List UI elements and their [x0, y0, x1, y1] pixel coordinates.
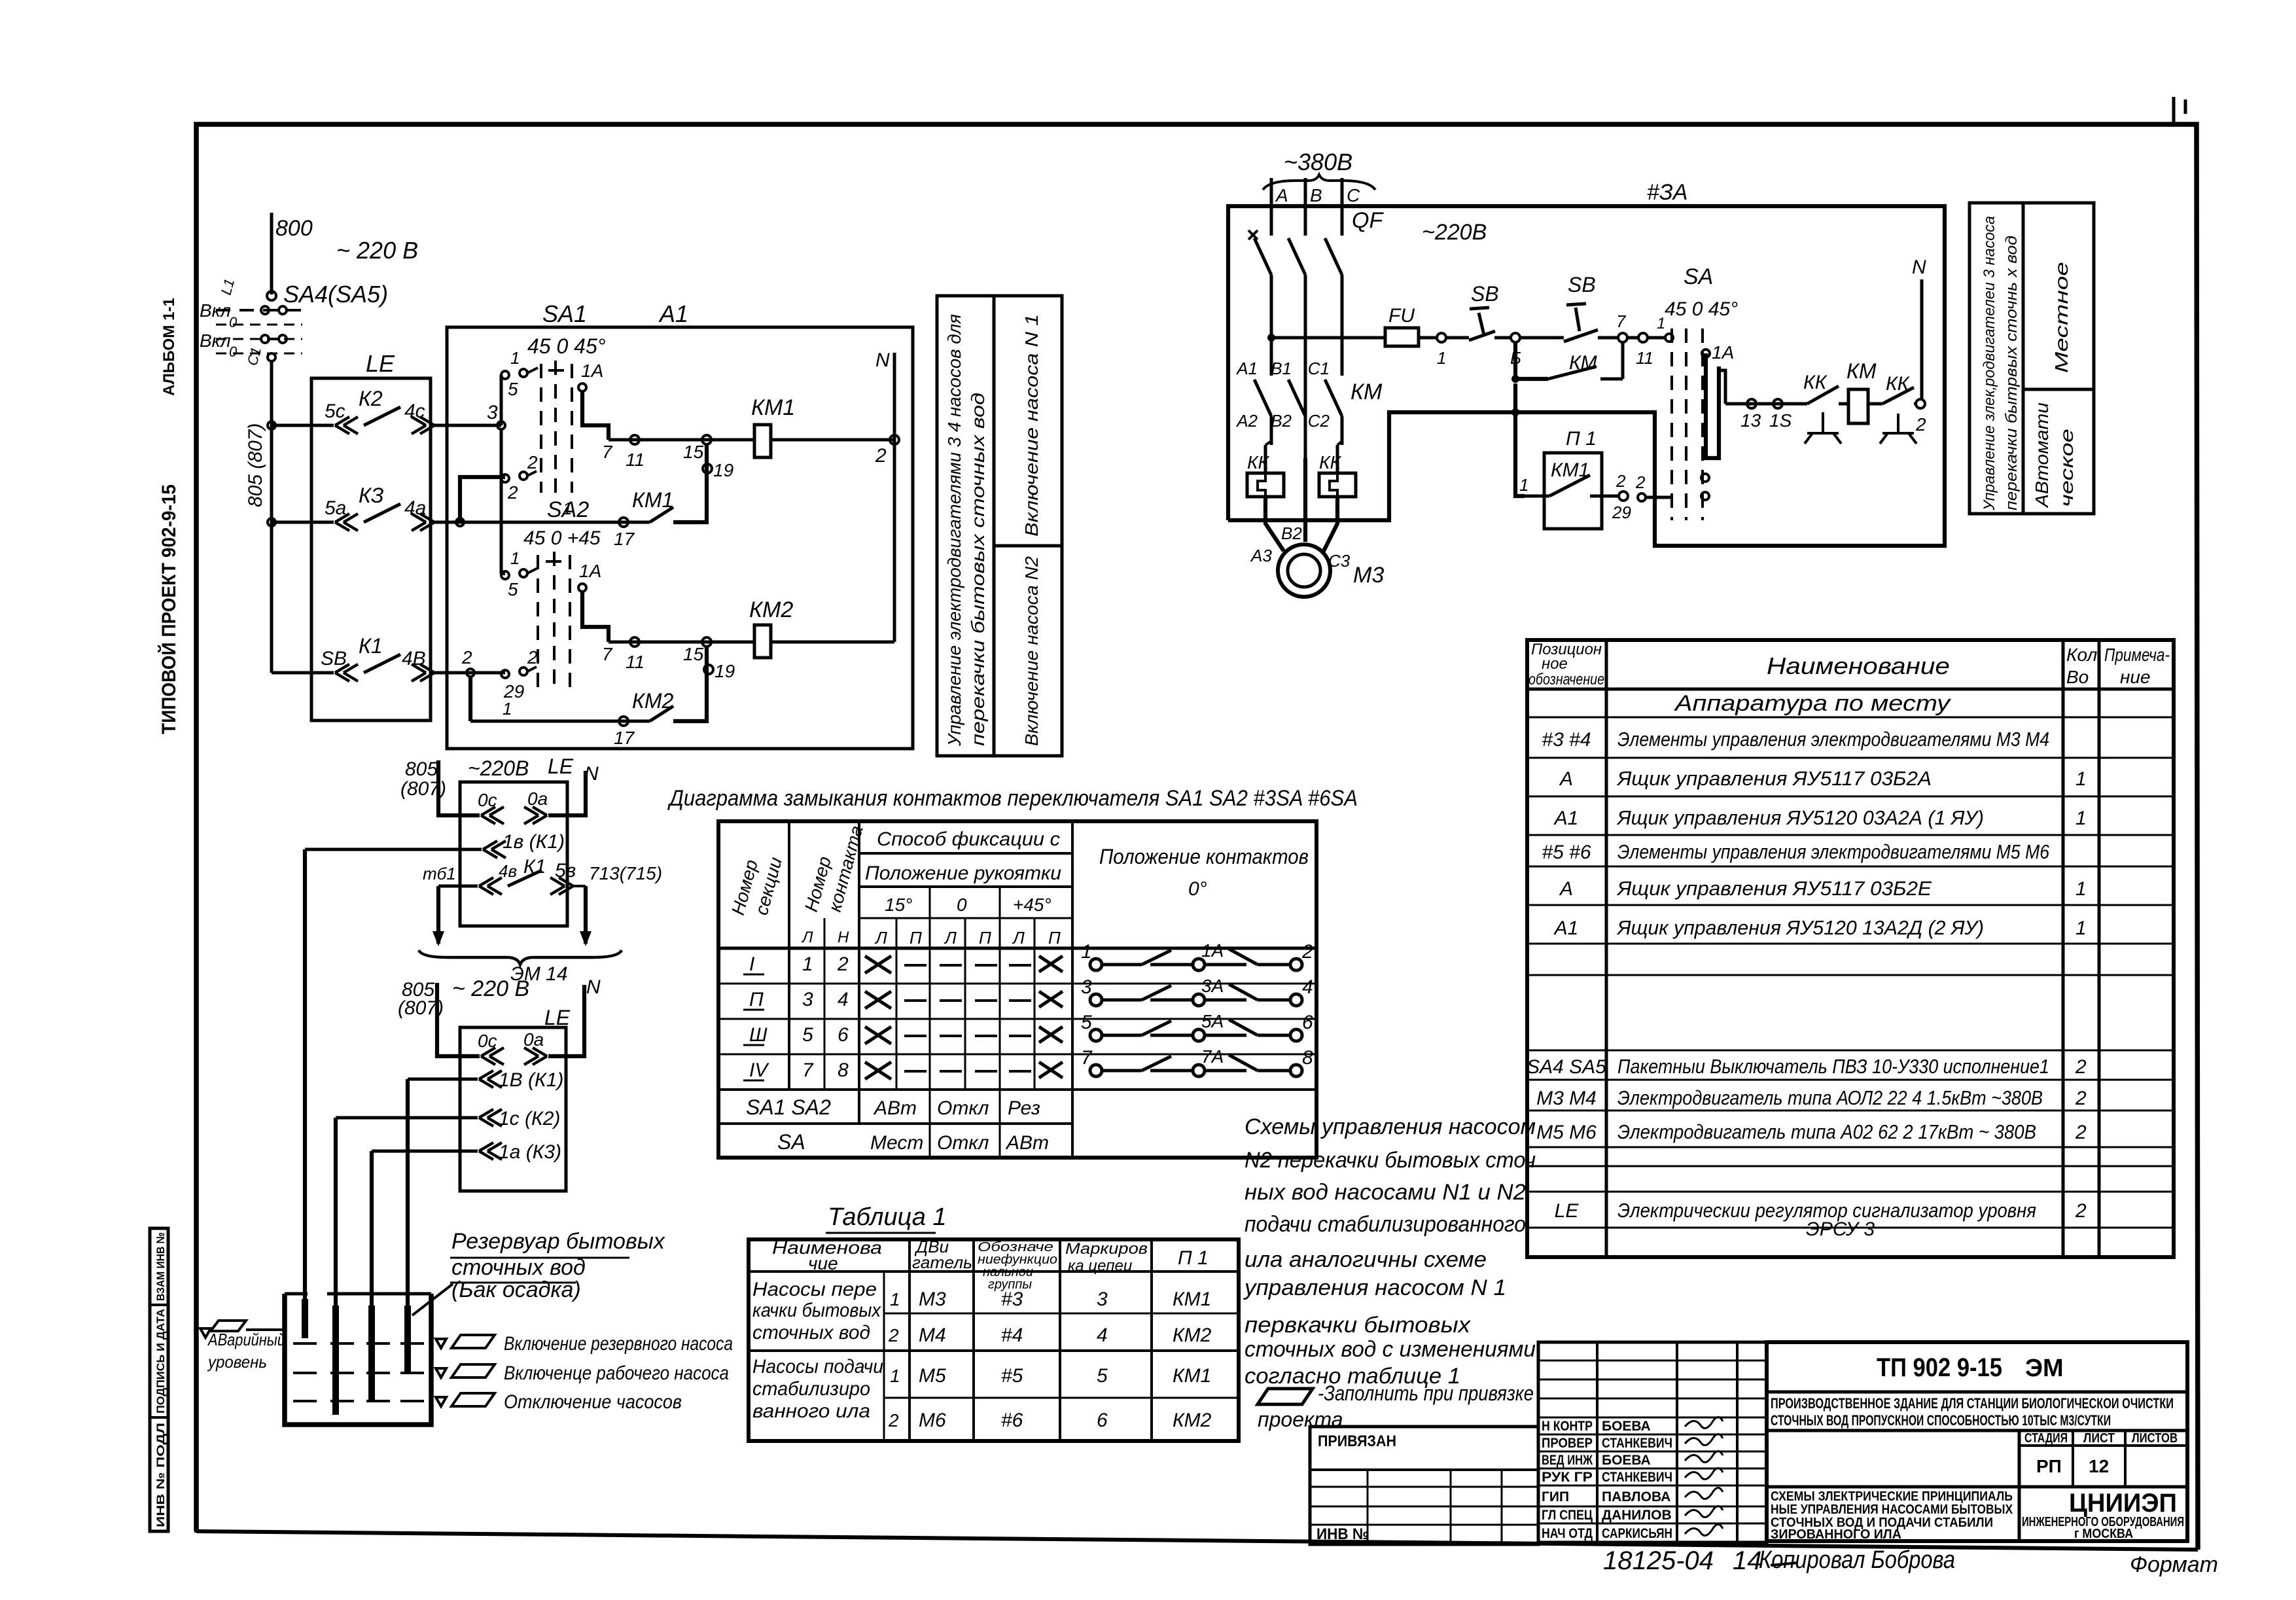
svg-text:В: В	[1310, 185, 1322, 205]
svg-text:1: 1	[510, 548, 520, 568]
svg-text:1: 1	[1519, 475, 1528, 495]
svg-text:Положение контактов: Положение контактов	[1099, 845, 1309, 868]
svg-text:1: 1	[2075, 878, 2087, 900]
svg-text:1: 1	[503, 699, 512, 719]
svg-text:1: 1	[2075, 917, 2087, 939]
svg-text:Откл: Откл	[937, 1097, 989, 1119]
wire: feed down to contact rows	[270, 361, 274, 673]
svg-text:управления насосом N 1: управления насосом N 1	[1243, 1275, 1506, 1300]
svg-text:8: 8	[1302, 1047, 1313, 1069]
wire row 5a-K3-4a	[272, 521, 334, 524]
svg-text:подачи стабилизированного: подачи стабилизированного	[1245, 1212, 1526, 1237]
SA1 contact 2 (row 2 pick)	[501, 474, 509, 482]
svg-text:Насосы подачи: Насосы подачи	[752, 1356, 883, 1378]
svg-text:#3 #4: #3 #4	[1542, 729, 1591, 751]
svg-text:15: 15	[683, 442, 704, 462]
svg-text:А1: А1	[1235, 359, 1258, 378]
annotation box: local/automatic control	[1969, 203, 2094, 514]
svg-text:ных вод насосами N1 и N2: ных вод насосами N1 и N2	[1245, 1180, 1526, 1205]
svg-text:Включение резервного насоса: Включение резервного насоса	[504, 1333, 733, 1355]
svg-text:БОЕВА: БОЕВА	[1602, 1419, 1651, 1434]
svg-text:0: 0	[229, 344, 238, 360]
svg-text:1А: 1А	[1201, 940, 1224, 961]
node on phase A + control bus tap	[1267, 334, 1275, 342]
svg-text:11: 11	[626, 450, 645, 470]
svg-text:ИНВ № ПОДЛ: ИНВ № ПОДЛ	[154, 1423, 167, 1527]
svg-text:П: П	[979, 928, 991, 948]
wires to motor	[1265, 497, 1284, 551]
relay box LE bottom	[460, 1027, 566, 1191]
svg-text:~220В: ~220В	[1422, 220, 1487, 245]
node 2 on N line	[890, 435, 899, 444]
svg-text:Включение насоса N 1: Включение насоса N 1	[1021, 314, 1042, 537]
contact 0a arrow	[524, 1048, 547, 1065]
svg-text:1: 1	[802, 953, 813, 975]
svg-text:I: I	[749, 953, 754, 975]
svg-text:0а: 0а	[523, 1029, 544, 1050]
svg-text:Включение насоса N2: Включение насоса N2	[1021, 556, 1042, 746]
svg-text:А: А	[1559, 768, 1573, 790]
svg-text:ила аналогичны схеме: ила аналогичны схеме	[1245, 1247, 1487, 1272]
svg-text:1А: 1А	[1712, 342, 1734, 363]
svg-text:#5 #6: #5 #6	[1542, 842, 1591, 863]
svg-text:7А: 7А	[1201, 1046, 1224, 1067]
svg-text:П: П	[749, 989, 764, 1010]
svg-text:2: 2	[461, 647, 472, 667]
wire riser to SA2	[500, 429, 503, 574]
svg-text:АВт: АВт	[1005, 1132, 1049, 1154]
svg-text:Насосы пере: Насосы пере	[752, 1279, 877, 1300]
svg-text:КМ1: КМ1	[1173, 1365, 1211, 1387]
svg-text:18125-04: 18125-04	[1603, 1546, 1714, 1575]
svg-text:+45°: +45°	[1013, 895, 1051, 915]
svg-text:КМ1: КМ1	[751, 395, 795, 420]
svg-text:SA1 SA2: SA1 SA2	[746, 1095, 831, 1119]
svg-text:Ящик управления ЯУ5117 03Б2Е: Ящик управления ЯУ5117 03Б2Е	[1616, 877, 1932, 900]
svg-text:А: А	[1275, 185, 1288, 205]
svg-text:Положение рукоятки: Положение рукоятки	[865, 862, 1061, 884]
svg-text:проекта: проекта	[1258, 1408, 1343, 1431]
svg-text:#5: #5	[1001, 1365, 1023, 1387]
svg-text:ние: ние	[2120, 667, 2151, 687]
svg-text:SB: SB	[321, 648, 347, 669]
svg-text:САРКИСЬЯН: САРКИСЬЯН	[1602, 1526, 1672, 1541]
note: заполнить при привязке	[1258, 1389, 1313, 1404]
SA2 contact 2-29 (row 3)	[501, 670, 509, 678]
wire electrode 3	[370, 1151, 374, 1400]
svg-text:2: 2	[875, 445, 887, 467]
svg-text:2: 2	[1915, 414, 1926, 435]
svg-text:Н: Н	[838, 929, 849, 946]
svg-text:2: 2	[2075, 1088, 2087, 1109]
svg-text:АВтомати: АВтомати	[2032, 402, 2052, 509]
wire N into LE3	[548, 985, 584, 1056]
svg-text:А1: А1	[658, 300, 688, 327]
interlock П1 box	[1544, 453, 1602, 529]
parts table frame	[1527, 640, 2174, 1257]
svg-text:Включенце рабочего насоса: Включенце рабочего насоса	[504, 1362, 729, 1384]
vertical feeders to KM contacts	[1270, 308, 1273, 376]
svg-text:1с (К2): 1с (К2)	[499, 1108, 560, 1129]
svg-text:сточных вод с изменениями: сточных вод с изменениями	[1245, 1337, 1536, 1362]
svg-text:Ящик управления ЯУ5117 03Б2А: Ящик управления ЯУ5117 03Б2А	[1616, 767, 1932, 790]
svg-text:РП: РП	[2036, 1456, 2062, 1476]
svg-text:КЗ: КЗ	[359, 484, 384, 507]
switch SA4(SA5) pack switch	[267, 291, 276, 300]
svg-text:А: А	[1559, 878, 1573, 900]
svg-text:#6: #6	[1001, 1410, 1023, 1431]
svg-text:LE: LE	[1555, 1200, 1580, 1222]
svg-text:2: 2	[2075, 1056, 2087, 1078]
svg-text:2: 2	[2075, 1200, 2087, 1222]
relay box LE middle	[460, 782, 567, 926]
svg-text:~ 220 B: ~ 220 B	[336, 237, 418, 264]
svg-text:SB: SB	[1568, 273, 1596, 296]
signature table	[1538, 1342, 1767, 1542]
svg-text:АВарийный: АВарийный	[207, 1330, 285, 1349]
svg-text:45 0 +45: 45 0 +45	[523, 527, 601, 549]
SA4 dashed contact rows	[216, 309, 302, 311]
svg-text:3А: 3А	[1201, 976, 1224, 996]
svg-text:М3: М3	[1353, 563, 1384, 588]
wire row 1с (К2)	[336, 1116, 478, 1120]
svg-text:КК: КК	[1803, 372, 1828, 393]
svg-text:19: 19	[715, 661, 735, 681]
svg-text:ческое: ческое	[2057, 429, 2077, 507]
svg-text:-Заполнить при привязке: -Заполнить при привязке	[1318, 1381, 1534, 1405]
svg-text:~220В: ~220В	[468, 756, 529, 780]
svg-text:СТАНКЕВИЧ: СТАНКЕВИЧ	[1602, 1436, 1672, 1451]
svg-text:17: 17	[614, 728, 635, 748]
svg-text:(Бак осадка): (Бак осадка)	[451, 1277, 581, 1302]
svg-text:SA1: SA1	[542, 300, 587, 327]
svg-text:ЭРСУ 3: ЭРСУ 3	[1806, 1218, 1875, 1240]
svg-text:1: 1	[2075, 808, 2087, 829]
svg-text:КМ2: КМ2	[1173, 1410, 1212, 1431]
svg-text:29: 29	[1612, 503, 1631, 522]
svg-text:А1: А1	[1553, 917, 1579, 939]
svg-text:2: 2	[888, 1325, 899, 1345]
svg-text:сточных вод: сточных вод	[752, 1322, 870, 1343]
annotation box: pump control functions	[937, 296, 1062, 756]
svg-text:3: 3	[1081, 976, 1092, 998]
svg-text:Схемы управления насосом: Схемы управления насосом	[1245, 1114, 1536, 1139]
svg-text:0а: 0а	[527, 789, 548, 809]
svg-text:45 0 45°: 45 0 45°	[1665, 298, 1738, 320]
svg-text:Ящик управления ЯУ5120 03А2А: Ящик управления ЯУ5120 03А2А (1 ЯУ)	[1616, 806, 1984, 829]
contactor KM aux junction dot	[1511, 375, 1519, 383]
wire KM2 coil row	[609, 641, 754, 644]
contact 0a arrow	[524, 807, 547, 824]
svg-text:0с: 0с	[478, 1031, 497, 1051]
svg-text:ТП 902 9-15: ТП 902 9-15	[1877, 1353, 2002, 1382]
svg-text:2: 2	[1301, 941, 1313, 963]
svg-text:Пакетныи Выключатель ПВЗ 10-У3: Пакетныи Выключатель ПВЗ 10-У330 исполне…	[1617, 1055, 2049, 1078]
svg-text:12: 12	[2089, 1456, 2109, 1476]
svg-text:4: 4	[1097, 1324, 1108, 1346]
svg-text:ВЕД ИНЖ: ВЕД ИНЖ	[1542, 1453, 1593, 1468]
contact KM1 in П1	[1525, 495, 1549, 498]
wire row 5c-K2-4c	[272, 424, 334, 427]
svg-text:2: 2	[527, 647, 538, 667]
svg-text:5: 5	[1081, 1012, 1092, 1033]
svg-text:4: 4	[838, 989, 849, 1010]
svg-text:С3: С3	[1328, 551, 1351, 571]
svg-text:Л: Л	[874, 928, 887, 948]
svg-text:4: 4	[1302, 976, 1313, 998]
svg-text:ГЛ СПЕЦ: ГЛ СПЕЦ	[1542, 1508, 1593, 1523]
svg-text:FU: FU	[1388, 305, 1415, 327]
svg-text:ванного ила: ванного ила	[752, 1400, 870, 1422]
svg-text:М5: М5	[919, 1365, 946, 1387]
svg-text:0: 0	[957, 895, 967, 915]
svg-text:N: N	[1912, 257, 1926, 278]
svg-text:БОЕВА: БОЕВА	[1602, 1453, 1651, 1468]
svg-text:2: 2	[888, 1410, 899, 1431]
level mark: отключение насосов	[436, 1397, 446, 1406]
svg-text:СТАНКЕВИЧ: СТАНКЕВИЧ	[1602, 1470, 1672, 1485]
svg-text:7: 7	[602, 442, 613, 462]
wire row 4в К1 5в	[438, 885, 478, 888]
svg-text:1А: 1А	[579, 561, 601, 581]
svg-text:обозначение: обозначение	[1528, 671, 1604, 688]
wire row SB-K1-4B	[272, 671, 334, 675]
svg-text:LE: LE	[544, 1006, 571, 1029]
phase A line	[1270, 178, 1273, 222]
svg-text:5: 5	[802, 1024, 813, 1046]
svg-text:перекачки бытовых сточных вод: перекачки бытовых сточных вод	[968, 393, 988, 746]
svg-text:~ 220 В: ~ 220 В	[452, 976, 529, 1001]
wire N into LE2	[548, 771, 586, 815]
svg-text:8: 8	[838, 1059, 849, 1081]
contact 0c arrow	[481, 807, 504, 824]
contactor coil KM2	[754, 625, 771, 658]
svg-text:перекачки бытрвых сточнь х в: перекачки бытрвых сточнь х вод	[2003, 236, 2021, 510]
wire electrode 1	[303, 849, 307, 1338]
svg-text:45 0 45°: 45 0 45°	[527, 334, 606, 358]
svg-text:СХЕМЫ ЗЛЕКТРИЧЕСКИЕ ПРИНЦИПИАЛ: СХЕМЫ ЗЛЕКТРИЧЕСКИЕ ПРИНЦИПИАЛЬ	[1771, 1489, 2013, 1504]
svg-text:Откл: Откл	[937, 1132, 989, 1154]
svg-text:SA4 SA5: SA4 SA5	[1527, 1056, 1606, 1078]
svg-text:2: 2	[837, 953, 849, 975]
svg-text:5: 5	[1097, 1365, 1108, 1387]
svg-text:7: 7	[602, 644, 613, 664]
svg-text:ПРОИЗВОДСТВЕННОЕ ЗДАНИЕ ДЛЯ СТ: ПРОИЗВОДСТВЕННОЕ ЗДАНИЕ ДЛЯ СТАНЦИИ БИОЛ…	[1771, 1395, 2174, 1412]
svg-text:SA: SA	[777, 1130, 805, 1154]
svg-text:К2: К2	[359, 387, 383, 410]
svg-text:1: 1	[563, 499, 572, 518]
svg-text:КМ2: КМ2	[749, 597, 793, 622]
svg-text:А1: А1	[1553, 808, 1579, 829]
svg-text:805 (807): 805 (807)	[245, 423, 266, 507]
svg-text:1в (К1): 1в (К1)	[503, 831, 565, 853]
svg-text:7: 7	[802, 1059, 814, 1081]
wire node15 down to 19 and KM1 aux	[673, 444, 707, 522]
phase B line	[1304, 178, 1307, 222]
svg-text:0: 0	[229, 314, 238, 330]
svg-text:К1: К1	[359, 634, 383, 658]
svg-text:В2: В2	[1281, 524, 1302, 543]
svg-text:ка цепеи: ка цепеи	[1068, 1257, 1132, 1275]
svg-text:6: 6	[838, 1024, 849, 1046]
svg-text:С: С	[1347, 185, 1360, 205]
svg-text:Кол: Кол	[2066, 645, 2097, 665]
svg-text:19: 19	[713, 460, 733, 480]
svg-text:LE: LE	[548, 755, 574, 778]
svg-text:ЦНИИЭП: ЦНИИЭП	[2069, 1489, 2177, 1518]
svg-text:0°: 0°	[1188, 878, 1207, 900]
svg-text:SA: SA	[1684, 264, 1713, 289]
svg-text:С2: С2	[1308, 411, 1330, 431]
svg-text:13: 13	[1740, 410, 1761, 431]
svg-text:2: 2	[2075, 1122, 2087, 1143]
svg-text:А3: А3	[1250, 546, 1272, 565]
tank Резервуар бытовых сточных вод	[285, 1294, 431, 1425]
svg-text:первкачки бытовых: первкачки бытовых	[1245, 1313, 1471, 1338]
svg-text:3: 3	[487, 402, 498, 423]
svg-text:17: 17	[614, 529, 635, 549]
wire SA output row	[1725, 402, 1807, 406]
svg-text:КМ1: КМ1	[1173, 1289, 1211, 1310]
svg-text:Л: Л	[801, 929, 813, 946]
svg-text:Н КОНТР: Н КОНТР	[1542, 1419, 1593, 1434]
svg-text:14: 14	[1733, 1546, 1762, 1575]
control box A1	[447, 327, 913, 749]
wire electrode 2	[334, 1118, 338, 1415]
neutral N line	[893, 353, 896, 642]
left stamp column box	[150, 1228, 168, 1531]
brace and label ЭМ 14	[419, 950, 622, 965]
svg-text:5: 5	[508, 379, 518, 399]
svg-text:Ящик управления ЯУ5120 13А2Д (: Ящик управления ЯУ5120 13А2Д (2 ЯУ)	[1616, 916, 1984, 939]
svg-text:SA4(SA5): SA4(SA5)	[283, 281, 388, 308]
svg-text:Диаграмма замыкания контакто: Диаграмма замыкания контактов переключат…	[667, 786, 1358, 811]
wire KM1 coil row	[609, 438, 754, 442]
Таблица 1 frame	[749, 1239, 1239, 1441]
svg-text:сточных вод: сточных вод	[451, 1255, 586, 1280]
svg-text:LE: LE	[366, 350, 395, 377]
svg-text:Управление злек‚родвигателеи 3: Управление злек‚родвигателеи 3 насоса	[1981, 216, 1998, 511]
svg-text:11: 11	[626, 652, 645, 672]
wire node15 down to 19 and KM2 aux	[673, 647, 707, 721]
svg-text:6: 6	[1097, 1410, 1108, 1431]
svg-text:QF: QF	[1352, 208, 1384, 233]
svg-text:Таблица 1: Таблица 1	[828, 1203, 947, 1231]
svg-text:ЛИСТ: ЛИСТ	[2083, 1431, 2115, 1446]
svg-text:гатель: гатель	[912, 1253, 972, 1272]
svg-text:1: 1	[2075, 768, 2087, 790]
svg-text:стабилизиро: стабилизиро	[752, 1378, 870, 1400]
leader line to tank	[412, 1284, 453, 1315]
svg-text:Наименование: Наименование	[1767, 652, 1950, 679]
svg-text:2: 2	[1616, 471, 1626, 491]
level mark: включение резервного насоса	[436, 1339, 446, 1348]
svg-text:ЛИСТОВ: ЛИСТОВ	[2132, 1431, 2178, 1446]
svg-text:1S: 1S	[1769, 410, 1792, 431]
svg-text:805: 805	[405, 758, 438, 780]
svg-text:Резервуар бытовых: Резервуар бытовых	[451, 1229, 665, 1254]
svg-text:Местное: Местное	[2051, 262, 2072, 373]
motor M3	[1278, 544, 1330, 597]
svg-text:М5 М6: М5 М6	[1536, 1122, 1597, 1143]
wire node 3 riser	[500, 375, 503, 425]
svg-text:КМ: КМ	[1846, 359, 1877, 383]
svg-text:1А: 1А	[581, 361, 603, 381]
svg-text:АВт: АВт	[873, 1097, 917, 1119]
SA1 dashed shaft lines	[540, 364, 542, 493]
phase C line	[1341, 178, 1344, 222]
svg-text:НЫЕ УПРАВЛЕНИЯ НАСОСАМИ БЫТОВЫ: НЫЕ УПРАВЛЕНИЯ НАСОСАМИ БЫТОВЫХ	[1771, 1502, 2013, 1517]
svg-text:М3: М3	[919, 1289, 946, 1310]
contact 0c arrow	[481, 1048, 504, 1065]
svg-text:Л: Л	[944, 928, 957, 948]
svg-text:тб1: тб1	[423, 864, 456, 883]
power box #3A (notched outline)	[1228, 206, 1945, 546]
top-right sheet tick marks	[2172, 97, 2176, 124]
svg-text:АЛЬБОМ 1-1: АЛЬБОМ 1-1	[160, 298, 178, 396]
border frame	[196, 124, 2198, 1550]
svg-text:П: П	[1048, 928, 1061, 948]
svg-text:#ЗА: #ЗА	[1647, 180, 1687, 205]
level mark аварийный уровень	[200, 1328, 211, 1338]
svg-text:Маркиров: Маркиров	[1065, 1240, 1148, 1258]
parts table header	[1527, 688, 2174, 691]
contact K2 blade	[364, 407, 400, 425]
wire electrode 4	[406, 1079, 410, 1373]
wire feed into LE3	[437, 983, 480, 1056]
svg-text:2: 2	[1635, 472, 1646, 492]
svg-text:1В (К1): 1В (К1)	[499, 1069, 563, 1091]
svg-text:713(715): 713(715)	[589, 863, 662, 883]
svg-text:ПОДПИСЬ И ДАТА: ПОДПИСЬ И ДАТА	[154, 1309, 167, 1413]
svg-text:чие: чие	[808, 1253, 838, 1273]
svg-text:2: 2	[507, 482, 518, 503]
contactor coil KM1	[754, 425, 771, 457]
svg-text:5: 5	[508, 579, 518, 599]
SA2 contact 1-5	[501, 571, 509, 579]
svg-text:7: 7	[1616, 311, 1627, 331]
svg-text:ЗИРОВАННОГО ИЛА: ЗИРОВАННОГО ИЛА	[1771, 1527, 1901, 1542]
control bus from phase A	[1271, 336, 1385, 340]
svg-text:ДАНИЛОВ: ДАНИЛОВ	[1602, 1508, 1672, 1523]
svg-text:1: 1	[890, 1366, 900, 1386]
svg-text:ПРИВЯЗАН: ПРИВЯЗАН	[1318, 1432, 1396, 1450]
SA1 contact 1-5	[501, 371, 509, 379]
svg-text:ТИПОВОЙ ПРОЕКТ 902-9-15: ТИПОВОЙ ПРОЕКТ 902-9-15	[158, 484, 180, 734]
svg-text:КМ: КМ	[1351, 380, 1383, 404]
title block main box	[1767, 1342, 2187, 1541]
water level dashes	[293, 1342, 317, 1345]
svg-text:уровень: уровень	[207, 1352, 267, 1372]
svg-text:Управление электродвигателями: Управление электродвигателями 3 4 насосо…	[944, 314, 964, 747]
svg-text:С1: С1	[1308, 359, 1330, 378]
svg-text:Примеча-: Примеча-	[2104, 645, 2170, 665]
svg-text:5с: 5с	[325, 400, 345, 422]
svg-text:Мест: Мест	[870, 1132, 923, 1154]
svg-text:1: 1	[890, 1289, 900, 1309]
privyazan box	[1310, 1427, 1538, 1544]
svg-text:Формат: Формат	[2130, 1552, 2218, 1577]
level mark: включение рабочего насоса	[436, 1368, 446, 1378]
svg-text:Способ фиксации с: Способ фиксации с	[877, 828, 1060, 850]
svg-text:ГИП: ГИП	[1542, 1489, 1569, 1504]
svg-text:Элементы управления электродви: Элементы управления электродвигателями М…	[1617, 840, 2050, 863]
svg-text:5а: 5а	[325, 497, 346, 519]
svg-text:3: 3	[1097, 1289, 1108, 1310]
svg-text:1: 1	[510, 348, 520, 368]
svg-text:Электродвигатель типа АОЛ2 22: Электродвигатель типа АОЛ2 22 4 1.5кВт ~…	[1617, 1086, 2043, 1109]
svg-text:КМ2: КМ2	[1173, 1324, 1212, 1346]
